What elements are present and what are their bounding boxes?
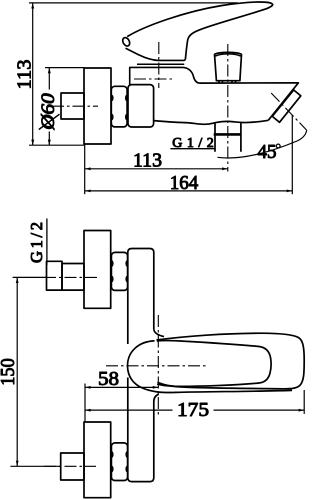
svg-text:113: 113 bbox=[133, 150, 162, 172]
svg-text:150: 150 bbox=[0, 358, 19, 386]
svg-text:164: 164 bbox=[170, 172, 199, 194]
svg-text:175: 175 bbox=[177, 399, 209, 421]
svg-text:113: 113 bbox=[13, 60, 35, 90]
svg-text:58: 58 bbox=[98, 368, 119, 390]
svg-text:G1/2: G1/2 bbox=[27, 222, 46, 263]
svg-text:45: 45 bbox=[258, 141, 277, 163]
svg-text:Ø60: Ø60 bbox=[38, 93, 59, 131]
svg-text:G1/2: G1/2 bbox=[172, 136, 214, 151]
